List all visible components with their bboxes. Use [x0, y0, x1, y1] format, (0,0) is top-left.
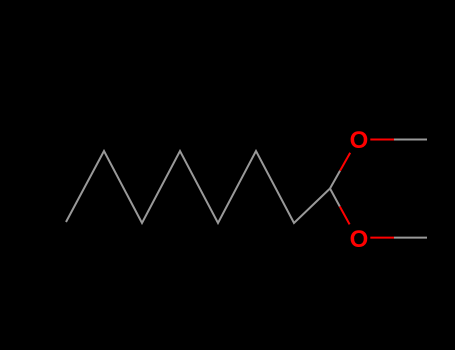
wire: carbon chain zig-zag CH3-(CH2)6- — [66, 151, 330, 223]
wire: top O to methyl, red half — [370, 139, 394, 141]
wire: acetal C to bottom O, red half — [340, 207, 350, 225]
wire: acetal C to bottom O, grey half — [330, 189, 340, 207]
wire: bottom O to methyl, grey half — [394, 237, 427, 239]
wire: acetal C to top O, red half — [340, 153, 350, 171]
wire: top O to methyl, grey half — [394, 139, 427, 141]
wire: acetal C to top O, grey half — [330, 171, 340, 189]
svg-text:O: O — [350, 226, 369, 253]
svg-text:O: O — [350, 127, 369, 154]
wire: bottom O to methyl, red half — [370, 237, 394, 239]
